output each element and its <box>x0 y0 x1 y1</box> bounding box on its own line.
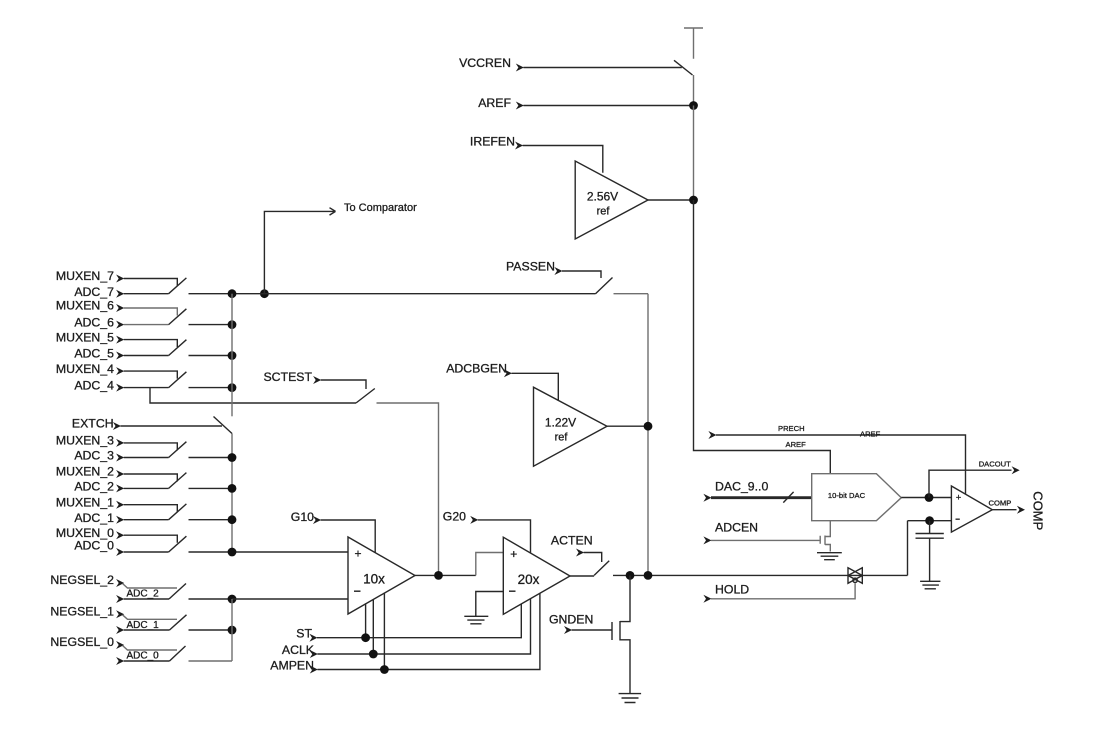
wire MUXEN_5 control <box>124 340 178 347</box>
wire VCCREN control <box>523 67 681 69</box>
switch NEGSEL_2 flag box <box>123 584 178 589</box>
node ADC_0 bus junction <box>228 548 237 557</box>
wire 1.22V node down to output junction <box>647 426 649 575</box>
signal label AMPEN <box>270 659 318 674</box>
svg-text:ref: ref <box>597 206 611 218</box>
wire DAC bus <box>711 496 812 499</box>
node DAC output junction <box>925 493 934 502</box>
svg-text:10x: 10x <box>363 572 385 587</box>
signal label AREF <box>478 96 524 110</box>
wire ACTEN control <box>584 553 602 563</box>
svg-text:ADC_2: ADC_2 <box>74 480 114 494</box>
node ADC_7 bus junction <box>228 289 237 298</box>
switch NEGSEL_1 blade <box>170 615 187 630</box>
svg-text:MUXEN_1: MUXEN_1 <box>56 495 114 509</box>
svg-text:MUXEN_3: MUXEN_3 <box>56 434 114 448</box>
wire AREF bus down to 2.56V node <box>693 106 695 201</box>
switch ACTEN blade <box>594 561 609 576</box>
wire ADC_1 to bus <box>189 519 233 521</box>
svg-text:AMPEN: AMPEN <box>270 659 314 673</box>
switch VCCREN blade <box>674 60 693 75</box>
wire NEGSEL_2 input <box>116 595 169 603</box>
svg-text:NEGSEL_1: NEGSEL_1 <box>50 604 114 618</box>
signal label NEGSEL_0 <box>50 635 124 649</box>
wire ADC_6 to bus <box>189 324 233 326</box>
signal label ADC_6 <box>74 316 124 330</box>
signal label DAC_9..0 <box>703 480 768 502</box>
svg-text:NEGSEL_2: NEGSEL_2 <box>50 573 114 587</box>
wire ADCBGEN control <box>512 373 559 401</box>
switch MUXEN_7 blade <box>169 278 187 294</box>
node AMPEN junction <box>380 665 389 674</box>
switch NEGSEL_2 blade <box>169 584 186 600</box>
wire NEGSEL_1 to bus <box>189 629 233 631</box>
node ADC_4 bus junction <box>228 383 237 392</box>
switch NEGSEL_0 blade <box>170 646 186 661</box>
wire NEGSEL_1 input <box>116 626 169 634</box>
comparator U5 <box>951 486 992 532</box>
switch NEGSEL_0 flag box <box>123 646 178 651</box>
svg-text:G20: G20 <box>443 510 466 524</box>
wire DAC output <box>901 497 951 499</box>
op-amp U4 20x <box>503 537 570 614</box>
signal label MUXEN_3 <box>56 434 124 448</box>
signal label MUXEN_2 <box>56 465 124 479</box>
svg-text:AREF: AREF <box>860 430 881 439</box>
wire 20x minus input to ground <box>476 592 504 617</box>
wire 10x ACLK stub <box>372 599 374 654</box>
wire negsel bus to 10x minus input <box>232 598 348 600</box>
signal label ADCEN <box>703 521 758 545</box>
signal label VCCREN <box>459 56 524 72</box>
svg-text:PASSEN: PASSEN <box>506 259 555 273</box>
wire MUXEN_4 control <box>124 371 178 379</box>
wire ADC_3 to bus <box>189 457 233 459</box>
wire GNDEN gate <box>572 629 612 631</box>
wire ADC_4 to bus <box>189 387 233 389</box>
wire 2.56V ref output <box>648 199 694 201</box>
wire MUXEN_2 control <box>124 474 178 482</box>
svg-text:ADC_6: ADC_6 <box>74 316 114 330</box>
signal label MUXEN_7 <box>56 269 124 283</box>
svg-text:SCTEST: SCTEST <box>263 370 312 384</box>
wire AMPEN line <box>317 593 540 669</box>
svg-text:MUXEN_7: MUXEN_7 <box>56 269 114 283</box>
svg-text:10-bit DAC: 10-bit DAC <box>828 491 866 500</box>
signal label ST <box>296 626 317 641</box>
signal label NEGSEL_1 <box>50 604 124 618</box>
node 10x output junction <box>434 571 443 580</box>
svg-text:ADC_4: ADC_4 <box>74 379 114 393</box>
svg-text:1.22V: 1.22V <box>545 416 576 430</box>
wire ST line <box>317 604 521 638</box>
svg-text:MUXEN_2: MUXEN_2 <box>56 465 114 479</box>
signal label MUXEN_5 <box>56 330 124 344</box>
wire ADC_2 input <box>124 487 169 489</box>
svg-text:G10: G10 <box>291 510 314 524</box>
svg-text:IREFEN: IREFEN <box>470 134 515 148</box>
signal label MUXEN_6 <box>56 299 124 313</box>
wire ACTEN output <box>613 574 908 576</box>
wire ADC_7 input <box>124 293 169 295</box>
wire PRECH control <box>708 431 965 494</box>
node NEGSEL_2 bus junction <box>228 595 237 604</box>
svg-text:GNDEN: GNDEN <box>549 613 593 627</box>
wire to comparator branch <box>264 208 335 294</box>
bus NEGSEL vertical <box>231 599 233 661</box>
svg-text:AREF: AREF <box>478 96 511 110</box>
wire comparator output <box>992 506 1025 514</box>
signal label ACLK <box>282 643 318 658</box>
switch MUXEN_1 blade <box>169 504 187 520</box>
node AREF junction <box>689 101 698 110</box>
wire MUXEN_3 control <box>124 443 178 451</box>
wire DACOUT <box>929 466 1020 497</box>
wire MUXEN_1 control <box>124 505 178 513</box>
wire SCTEST control <box>321 380 366 389</box>
node ACLK junction <box>369 650 378 659</box>
svg-text:2.56V: 2.56V <box>587 189 618 203</box>
wire MUXEN_0 control <box>124 535 178 543</box>
wire ADC_0 to 10x plus input <box>189 551 349 553</box>
node ST junction <box>361 633 370 642</box>
signal label ADC_1 <box>74 511 124 525</box>
switch MUXEN_2 blade <box>169 473 187 489</box>
svg-text:ADC_0: ADC_0 <box>74 539 114 553</box>
signal label G20 <box>443 510 479 524</box>
wire NEGSEL_0 input <box>116 657 169 665</box>
switch NEGSEL_1 flag box <box>123 615 178 620</box>
wire ADC_6 input <box>124 324 169 326</box>
svg-text:DACOUT: DACOUT <box>979 460 1011 469</box>
wire PASSEN to 1.22V node <box>614 294 649 427</box>
svg-text:+: + <box>354 547 361 561</box>
node ADC_5 bus junction <box>228 351 237 360</box>
switch MUXEN_4 blade <box>169 372 187 388</box>
node minus input junction <box>925 516 934 525</box>
ground Q1 <box>619 694 642 703</box>
signal label ACTEN <box>551 534 593 557</box>
svg-text:20x: 20x <box>518 572 540 587</box>
svg-text:COMP: COMP <box>989 498 1012 507</box>
signal label MUXEN_1 <box>56 495 124 509</box>
node NEGSEL_1 bus junction <box>228 626 237 635</box>
wire ADC_4 tap down to SCTEST line <box>150 388 356 403</box>
svg-text:+: + <box>510 547 517 561</box>
signal label GNDEN <box>549 613 593 635</box>
wire 10x output to 20x plus input <box>476 553 504 576</box>
svg-text:DAC_9..0: DAC_9..0 <box>715 480 768 494</box>
svg-text:AREF: AREF <box>786 440 807 449</box>
svg-text:MUXEN_4: MUXEN_4 <box>56 362 114 376</box>
svg-text:MUXEN_5: MUXEN_5 <box>56 330 114 344</box>
svg-text:ADCEN: ADCEN <box>715 521 758 535</box>
signal label NEGSEL_2 <box>50 573 124 587</box>
signal label ADC_7 <box>74 285 124 299</box>
wire AREF bus down to DAC <box>694 200 831 474</box>
svg-text:ST: ST <box>296 626 312 640</box>
switch PASSEN blade <box>596 278 613 294</box>
signal label ADCBGEN <box>446 362 512 378</box>
op-amp U3 10x <box>348 537 415 614</box>
switch MUXEN_6 blade <box>169 309 187 325</box>
signal label ADC_4 <box>74 379 124 393</box>
op-amp U2 1.22V ref <box>534 387 608 466</box>
switch MUXEN_0 blade <box>169 536 187 552</box>
wire ADC_4 input <box>124 387 169 389</box>
signal label SCTEST <box>263 370 321 384</box>
wire MUXEN_6 control <box>124 308 178 316</box>
svg-text:MUXEN_6: MUXEN_6 <box>56 299 114 313</box>
wire ADC_3 input <box>124 457 169 459</box>
wire 10x ST stub <box>365 603 367 637</box>
wire ADC_2 to bus <box>189 487 233 489</box>
wire PASSEN control <box>562 271 601 278</box>
transmission gate HOLD <box>848 568 862 584</box>
node ADC_6 bus junction <box>228 320 237 329</box>
ground C1 <box>920 581 940 589</box>
svg-text:+: + <box>956 492 962 503</box>
svg-text:ACLK: ACLK <box>282 643 315 657</box>
power VCC <box>684 28 703 59</box>
wire NEGSEL_2 to bus <box>189 598 233 600</box>
wire ADC_5 input <box>124 355 169 357</box>
svg-text:ADC_1: ADC_1 <box>74 511 114 525</box>
svg-text:ACTEN: ACTEN <box>551 534 593 548</box>
wire AREF input <box>523 105 693 107</box>
wire ADCEN gate <box>711 539 820 541</box>
wire ADC_1 input <box>124 519 169 521</box>
svg-text:ADC_5: ADC_5 <box>74 347 114 361</box>
capacitor C1 <box>916 521 944 581</box>
wire ADC_7 to bus <box>189 293 596 295</box>
svg-text:HOLD: HOLD <box>715 583 749 597</box>
wire 1.22V ref output <box>607 425 648 427</box>
wire ADC_5 to bus <box>189 355 233 357</box>
signal label HOLD <box>703 583 749 603</box>
node ADC_1 bus junction <box>228 515 237 524</box>
bus slash marker <box>783 492 793 503</box>
svg-text:ADC_3: ADC_3 <box>74 449 114 463</box>
wire SCTEST line to 10x output <box>377 403 439 575</box>
node sample junction B <box>644 571 653 580</box>
wire ACLK line <box>317 599 530 654</box>
wire vcc switch to AREF node <box>693 75 695 106</box>
switch SCTEST blade <box>356 389 375 404</box>
wire 10x AMPEN stub <box>383 593 385 670</box>
wire comparator minus input <box>908 520 952 522</box>
signal label IREFEN <box>470 134 523 149</box>
signal label PASSEN <box>506 259 562 275</box>
switch MUXEN_3 blade <box>169 442 187 458</box>
signal label EXTCH <box>72 417 121 431</box>
signal label ADC_3 <box>74 449 124 463</box>
signal label MUXEN_0 <box>56 526 124 540</box>
node ADC_2 bus junction <box>228 484 237 493</box>
switch MUXEN_5 blade <box>169 340 187 356</box>
svg-text:PRECH: PRECH <box>778 424 805 433</box>
svg-text:To Comparator: To Comparator <box>344 202 417 214</box>
wire IREFEN control <box>523 146 603 173</box>
svg-text:ADCBGEN: ADCBGEN <box>446 362 507 376</box>
wire 10x output <box>415 574 476 576</box>
block 10-bit DAC <box>812 474 902 521</box>
signal label MUXEN_4 <box>56 362 124 376</box>
svg-text:ADC_1: ADC_1 <box>127 620 160 631</box>
transistor Q1 GNDEN nmos <box>612 575 630 693</box>
node sample junction A <box>626 571 635 580</box>
node 1.22V output junction <box>644 422 653 431</box>
ground Q2 <box>817 553 842 560</box>
bus ADC upper vertical <box>231 294 233 417</box>
wire G20 control <box>478 520 531 553</box>
bus ADC lower vertical <box>231 434 233 553</box>
switch EXTCH blade <box>214 417 233 434</box>
transistor Q2 ADCEN nmos <box>820 521 830 552</box>
node To-Comparator branch junction <box>260 289 269 298</box>
wire NEGSEL_0 to bus <box>189 660 233 662</box>
wire 20x output <box>570 575 594 577</box>
wire EXTCH control <box>121 425 223 427</box>
ground 20x minus <box>464 616 488 624</box>
svg-text:ADC_2: ADC_2 <box>127 589 160 600</box>
svg-text:EXTCH: EXTCH <box>72 417 114 431</box>
wire G10 control <box>321 520 376 553</box>
signal label ADC_2 <box>74 480 124 494</box>
wire minus node down to hold line <box>907 521 909 576</box>
signal label ADC_5 <box>74 347 124 361</box>
svg-text:VCCREN: VCCREN <box>459 56 511 70</box>
svg-text:ADC_7: ADC_7 <box>74 285 114 299</box>
signal label G10 <box>291 510 321 524</box>
svg-text:ADC_0: ADC_0 <box>127 651 160 662</box>
wire HOLD control <box>711 583 855 599</box>
op-amp U1 2.56V ref <box>575 161 648 239</box>
svg-text:COMP: COMP <box>1031 491 1046 530</box>
wire MUXEN_7 control <box>124 279 178 287</box>
svg-text:ref: ref <box>555 432 569 444</box>
signal label ADC_0 <box>74 539 124 556</box>
node ADC_3 bus junction <box>228 453 237 462</box>
wire ADC_0 input <box>124 551 169 553</box>
svg-text:NEGSEL_0: NEGSEL_0 <box>50 635 114 649</box>
node 2.56V output junction <box>689 196 698 205</box>
